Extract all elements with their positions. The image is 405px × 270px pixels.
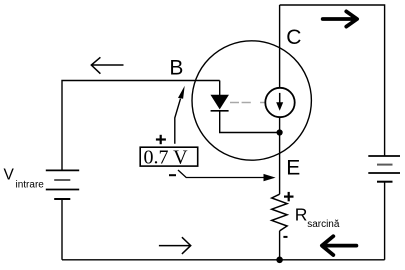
junction dot (bottom node) (276, 257, 283, 264)
svg-text:E: E (286, 157, 300, 180)
junction dot (emitter node) (277, 129, 283, 135)
svg-text:R: R (295, 204, 308, 224)
label R_sarcina (295, 204, 340, 230)
wire bottom (62, 259, 385, 261)
svg-text:intrare: intrare (16, 179, 45, 190)
wire resistor bottom lead (279, 231, 281, 260)
current arrow top-left (thin, left) (91, 57, 123, 73)
wire right vertical lower (384, 182, 386, 260)
wire right vertical upper + top horizontal to collector (280, 5, 385, 156)
plus sign at resistor (284, 192, 294, 201)
svg-text:sarcină: sarcină (307, 219, 340, 230)
minus sign at resistor (283, 236, 287, 238)
label V_intrare (4, 166, 45, 190)
annotation arrow 0.7V minus to E (178, 170, 276, 181)
battery V_intrare (46, 170, 79, 199)
dashed link diode to current source (230, 102, 264, 104)
wire emitter lead (279, 116, 281, 194)
annotation arrow 0.7V to B (175, 86, 185, 144)
diode (base-emitter junction) (211, 81, 280, 133)
minus sign at 0.7V (169, 174, 176, 176)
current source (265, 88, 294, 117)
wire collector lead (279, 5, 281, 88)
current arrow bottom-middle (thin, right) (159, 237, 191, 254)
wire base: left vertical + top horizontal to base (62, 81, 220, 171)
svg-text:V: V (4, 166, 15, 183)
resistor R_sarcina (272, 194, 287, 231)
current arrow top-right (bold, right) (323, 11, 357, 26)
current arrow bottom-right (bold, left) (322, 236, 357, 255)
battery right (368, 156, 400, 182)
svg-text:C: C (286, 26, 301, 49)
wire left bottom stub (61, 199, 63, 260)
0.7 V box (140, 147, 198, 169)
transistor model circle Q1 (192, 41, 311, 160)
svg-text:B: B (169, 56, 183, 79)
plus sign at 0.7V (156, 135, 166, 144)
svg-text:0.7 V: 0.7 V (144, 147, 189, 169)
